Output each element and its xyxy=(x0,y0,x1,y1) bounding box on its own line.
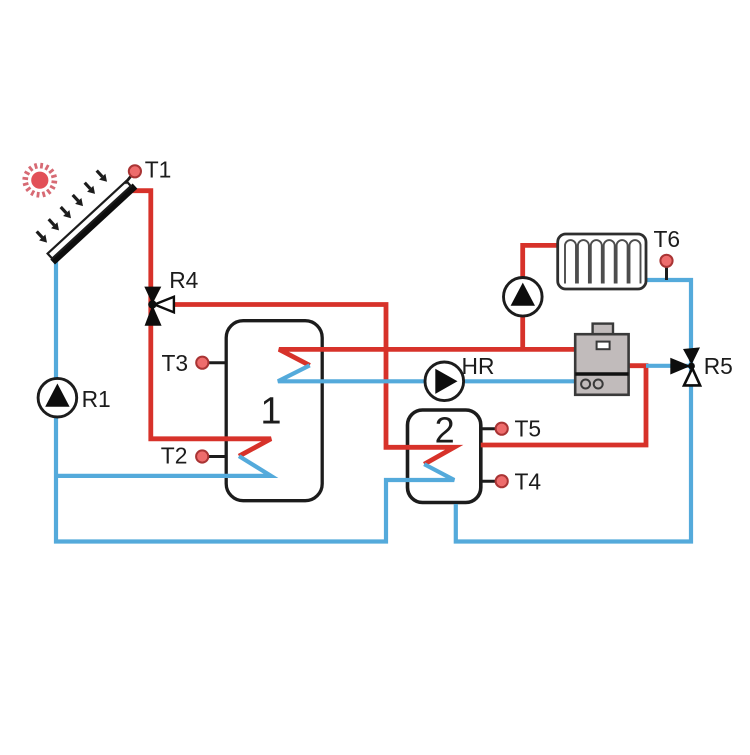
svg-text:R1: R1 xyxy=(82,386,111,412)
svg-text:HR: HR xyxy=(462,353,495,379)
svg-text:1: 1 xyxy=(260,391,281,433)
svg-text:2: 2 xyxy=(435,410,455,451)
svg-text:T2: T2 xyxy=(161,442,188,468)
svg-text:R5: R5 xyxy=(704,353,733,379)
svg-text:R4: R4 xyxy=(169,267,198,293)
svg-text:T3: T3 xyxy=(162,350,189,376)
svg-text:T5: T5 xyxy=(515,415,542,441)
svg-text:T4: T4 xyxy=(515,468,542,494)
svg-text:T1: T1 xyxy=(145,157,172,183)
svg-text:T6: T6 xyxy=(654,226,681,252)
